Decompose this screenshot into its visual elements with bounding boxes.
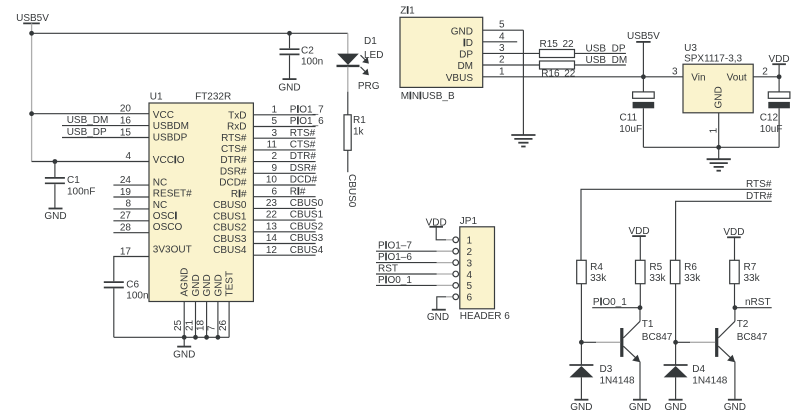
svg-text:5: 5	[499, 20, 505, 31]
svg-text:PRG: PRG	[358, 81, 380, 92]
wire rail to VCC pin	[32, 113, 149, 115]
svg-text:19: 19	[120, 187, 132, 198]
wire 3V3OUT pin 17 to C6	[114, 257, 149, 282]
svg-text:USB5V: USB5V	[16, 13, 49, 24]
node junction Vout/VDD/C12	[777, 74, 782, 79]
svg-text:GND: GND	[213, 274, 224, 296]
svg-text:R6: R6	[684, 262, 697, 273]
wire T1 base	[581, 341, 620, 343]
power flag USB5V (top-left)	[16, 13, 49, 24]
svg-text:Vin: Vin	[691, 72, 705, 83]
resistor R4 33k	[577, 260, 608, 284]
svg-text:FT232R: FT232R	[195, 92, 231, 103]
node junction GND bus	[716, 145, 721, 150]
svg-text:USBDM: USBDM	[153, 121, 189, 132]
wire PRG to R1	[347, 92, 349, 115]
svg-text:12: 12	[266, 245, 278, 256]
svg-text:1: 1	[271, 104, 277, 115]
svg-text:100n: 100n	[301, 57, 323, 68]
net label USB_DM	[62, 115, 149, 126]
svg-text:GND: GND	[570, 402, 592, 413]
wire pin 5 GND to earth drop	[483, 29, 524, 31]
svg-text:CBUS4: CBUS4	[213, 245, 247, 256]
svg-text:22: 22	[266, 210, 278, 221]
svg-text:2: 2	[271, 151, 277, 162]
wire LED cathode to PRG	[347, 67, 349, 92]
diode D4 1N4148	[664, 364, 728, 400]
svg-text:CBUS0: CBUS0	[213, 200, 247, 211]
svg-text:T1: T1	[642, 319, 654, 330]
wire Vout to VDD junction	[753, 76, 779, 78]
wire R4 to T1 base node	[580, 284, 582, 365]
resistor R7 33k	[730, 260, 761, 284]
power flag USB5V (right)	[627, 31, 660, 77]
svg-text:CBUS0: CBUS0	[290, 198, 324, 209]
svg-text:R16: R16	[541, 68, 560, 79]
svg-text:SPX1117-3,3: SPX1117-3,3	[684, 54, 742, 65]
svg-text:RST: RST	[378, 264, 398, 275]
svg-text:JP1: JP1	[460, 216, 478, 227]
net label PIO1-6	[376, 252, 437, 263]
svg-text:ZI1: ZI1	[400, 6, 415, 17]
wire pin 2 DM to R16	[483, 64, 540, 66]
svg-text:NC: NC	[153, 200, 167, 211]
svg-text:CTS#: CTS#	[290, 140, 316, 151]
connector Z1 MINIUSB_B body	[400, 17, 483, 87]
svg-text:R15: R15	[540, 39, 559, 50]
U1 left pin numbers 20 16 15 4 24 19 8 27 28 17	[120, 104, 132, 258]
svg-text:DSR#: DSR#	[290, 163, 317, 174]
svg-text:3: 3	[499, 43, 505, 54]
svg-text:PIO1_7: PIO1_7	[290, 104, 324, 115]
pin 6 circle	[453, 294, 459, 300]
U3 pin names Vin Vout GND	[691, 72, 747, 108]
svg-text:OSCI: OSCI	[153, 211, 177, 222]
svg-text:33k: 33k	[684, 273, 701, 284]
svg-text:22: 22	[564, 68, 576, 79]
svg-text:4: 4	[467, 270, 473, 281]
wire R6 to T2 base node	[675, 284, 677, 365]
svg-text:33k: 33k	[649, 273, 666, 284]
svg-text:100nF: 100nF	[67, 187, 95, 198]
svg-text:3: 3	[271, 128, 277, 139]
svg-text:AGND: AGND	[180, 268, 191, 297]
svg-text:33k: 33k	[744, 273, 761, 284]
capacitor C12 10uF (polarized)	[760, 77, 790, 148]
svg-text:21: 21	[184, 319, 195, 331]
node junction T2 base / D4	[673, 340, 678, 345]
svg-text:CBUS3: CBUS3	[290, 233, 324, 244]
U1 right pin numbers 1 5 3 11 2 9 10 6 23 22 13 14 12	[266, 104, 278, 255]
pin 7 GND stub	[217, 302, 219, 338]
net label PIO0_1 (T1 collector)	[592, 297, 640, 308]
pin 1 stub	[446, 239, 453, 241]
wire R7 to collector node	[734, 284, 736, 308]
svg-text:100n: 100n	[126, 291, 148, 302]
svg-text:VBUS: VBUS	[446, 73, 474, 84]
svg-text:20: 20	[120, 104, 132, 115]
svg-text:USB_DM: USB_DM	[67, 115, 109, 126]
svg-text:2: 2	[467, 247, 473, 258]
svg-text:GND: GND	[724, 402, 746, 413]
wire GND vertical drop	[522, 30, 524, 135]
svg-text:GND: GND	[427, 312, 449, 323]
svg-text:GND: GND	[202, 274, 213, 296]
net label RST	[376, 264, 437, 275]
svg-text:VCCIO: VCCIO	[153, 155, 185, 166]
svg-text:D1: D1	[364, 36, 377, 47]
pin 3 circle	[453, 260, 459, 266]
svg-text:TEST: TEST	[225, 271, 236, 297]
svg-text:CTS#: CTS#	[221, 144, 247, 155]
net label PIO0_1	[376, 275, 437, 286]
svg-text:DCD#: DCD#	[219, 178, 247, 189]
svg-text:1N4148: 1N4148	[600, 376, 635, 387]
pin 4 ID stub	[483, 41, 518, 43]
node junctions on ground bus	[182, 335, 221, 340]
node junction rail/VCC	[29, 111, 34, 116]
wire USB5V rail vertical	[31, 23, 33, 161]
ground GND under C2	[278, 79, 300, 93]
svg-text:PIO0_1: PIO0_1	[378, 275, 412, 286]
svg-text:15: 15	[120, 127, 132, 138]
resistor R15 22	[540, 39, 575, 58]
svg-text:18: 18	[195, 319, 206, 331]
pin 28 OSCO stub	[113, 232, 149, 234]
LED light arrows	[361, 55, 369, 75]
pin 2 stub	[437, 250, 453, 252]
wire R1 to CBUS0	[347, 150, 349, 172]
svg-text:ID: ID	[463, 38, 473, 49]
wire T2 base	[676, 341, 716, 343]
svg-text:9: 9	[271, 163, 277, 174]
svg-text:RTS#: RTS#	[746, 179, 772, 190]
svg-text:22: 22	[563, 39, 575, 50]
svg-text:nRST: nRST	[745, 297, 771, 308]
svg-text:C6: C6	[126, 280, 139, 291]
svg-text:7: 7	[207, 325, 218, 331]
pin 24 NC stub	[113, 184, 149, 186]
node junction USB5V/Vin/C11	[641, 74, 646, 79]
svg-text:16: 16	[120, 115, 132, 126]
power flag VDD (right)	[768, 54, 789, 77]
svg-text:25: 25	[173, 319, 184, 331]
svg-text:VDD: VDD	[723, 227, 744, 238]
svg-text:33k: 33k	[590, 273, 607, 284]
svg-text:10uF: 10uF	[760, 124, 783, 135]
LED D1	[337, 36, 384, 66]
diode D3 1N4148	[569, 364, 635, 400]
regulator U3 SPX1117-3,3 body	[683, 64, 753, 113]
svg-text:8: 8	[125, 199, 131, 210]
pin 5 stub	[437, 284, 453, 286]
ground earth symbol under Z1	[511, 135, 535, 147]
ground GND under JP1	[427, 310, 449, 323]
svg-text:VCC: VCC	[153, 110, 174, 121]
pin 5 circle	[453, 283, 459, 289]
transistor T2 BC847	[715, 308, 768, 400]
svg-text:DCD#: DCD#	[290, 175, 318, 186]
ground GND under C1	[44, 209, 66, 223]
svg-text:DM: DM	[457, 61, 473, 72]
pin 2 circle	[453, 248, 459, 254]
JP1 pin numbers 1-6	[467, 236, 473, 304]
pin 21 GND stub	[195, 302, 197, 338]
svg-text:CBUS0: CBUS0	[346, 174, 357, 208]
svg-text:GND: GND	[451, 26, 473, 37]
svg-text:RTS#: RTS#	[290, 128, 316, 139]
pin 4 stub	[437, 273, 453, 275]
capacitor C1 100nF	[45, 162, 95, 209]
svg-text:4: 4	[499, 31, 505, 42]
svg-text:PIO1_6: PIO1_6	[290, 116, 324, 127]
svg-text:CBUS4: CBUS4	[290, 245, 324, 256]
resistor R16 22	[540, 61, 576, 79]
svg-text:17: 17	[120, 246, 132, 257]
svg-text:23: 23	[266, 198, 278, 209]
svg-text:1: 1	[467, 236, 473, 247]
connector JP1 HEADER 6 body	[460, 227, 495, 309]
svg-text:D3: D3	[600, 364, 613, 375]
svg-text:CBUS1: CBUS1	[213, 211, 247, 222]
svg-text:C1: C1	[67, 175, 80, 186]
svg-text:RxD: RxD	[227, 122, 246, 133]
svg-text:CBUS1: CBUS1	[290, 210, 324, 221]
svg-text:GND: GND	[173, 350, 195, 361]
Z1 pin numbers 5 4 3 2 1	[499, 20, 505, 78]
U3 pin numbers 3 2 1	[672, 66, 768, 133]
svg-text:10uF: 10uF	[619, 124, 642, 135]
net label PIO1-7	[376, 241, 437, 252]
svg-text:2: 2	[762, 66, 768, 77]
pin 25 AGND stub	[183, 302, 185, 338]
pin 26 TEST stub	[228, 302, 230, 338]
wire ground bus under U1	[114, 336, 229, 338]
resistor R1 1k	[344, 115, 366, 151]
wire pin 3 DP to R15	[483, 52, 540, 54]
wire ground bus under U3	[643, 146, 779, 148]
svg-text:3V3OUT: 3V3OUT	[153, 245, 192, 256]
svg-text:R1: R1	[353, 115, 366, 126]
pin 19 RESET# stub	[113, 196, 149, 198]
wire pin 1 VBUS to USB5V junction	[483, 76, 683, 78]
ground GND under T2 emitter	[724, 400, 746, 413]
svg-text:C2: C2	[301, 46, 314, 57]
svg-text:R7: R7	[744, 262, 757, 273]
wire R5 to collector node	[639, 284, 641, 308]
svg-text:5: 5	[271, 116, 277, 127]
svg-text:DTR#: DTR#	[290, 151, 317, 162]
svg-text:C12: C12	[760, 112, 779, 123]
svg-text:1: 1	[709, 127, 720, 133]
svg-text:USB5V: USB5V	[627, 31, 660, 42]
svg-text:DSR#: DSR#	[220, 167, 247, 178]
pin 27 OSCI stub	[113, 220, 149, 222]
pin 8 NC stub	[113, 208, 149, 210]
svg-text:RI#: RI#	[290, 186, 306, 197]
node junction T1 base / D3	[579, 340, 584, 345]
svg-text:10: 10	[266, 175, 278, 186]
pin 18 GND stub	[206, 302, 208, 338]
svg-text:1: 1	[499, 66, 505, 77]
svg-text:BC847: BC847	[737, 332, 768, 343]
svg-text:6: 6	[467, 293, 473, 304]
Z1 pin names	[446, 26, 474, 84]
svg-text:U3: U3	[684, 43, 697, 54]
net label USB_DP	[62, 127, 149, 138]
capacitor C2 100n	[280, 33, 324, 79]
svg-text:R5: R5	[649, 262, 662, 273]
wire JP1 pin 6 to GND	[437, 297, 446, 310]
node junction rail/top wire	[29, 31, 34, 36]
svg-text:GND: GND	[629, 402, 651, 413]
capacitor C11 10uF (polarized)	[619, 77, 654, 148]
svg-text:1k: 1k	[353, 127, 365, 138]
power flag VDD above R5	[628, 226, 649, 260]
svg-text:5: 5	[467, 281, 473, 292]
wire RTS# net	[581, 189, 772, 260]
svg-text:MINIUSB_B: MINIUSB_B	[401, 91, 455, 102]
net label nRST (T2 collector)	[735, 297, 772, 308]
svg-text:USB_DM: USB_DM	[586, 55, 628, 66]
U1 right pin stubs	[253, 115, 315, 255]
wire DTR# net	[676, 201, 772, 260]
svg-text:4: 4	[125, 151, 131, 162]
svg-text:2: 2	[499, 55, 505, 66]
svg-text:24: 24	[120, 175, 132, 186]
ground GND under U1	[173, 337, 195, 360]
svg-text:PIO0_1: PIO0_1	[593, 297, 627, 308]
ground GND under D4	[664, 400, 686, 413]
U1 bottom pin names AGND GND GND GND TEST	[180, 268, 236, 297]
svg-text:14: 14	[266, 233, 278, 244]
svg-text:RESET#: RESET#	[153, 189, 192, 200]
svg-text:C11: C11	[620, 112, 638, 123]
wire R15 to USB_DP label	[575, 52, 626, 54]
transistor T1 BC847	[620, 308, 673, 400]
wire USB5V top horizontal to LED	[32, 32, 348, 34]
svg-text:USB_DP: USB_DP	[586, 43, 626, 54]
svg-text:GND: GND	[714, 86, 725, 108]
svg-text:3: 3	[672, 66, 678, 77]
pin 6 stub	[446, 296, 453, 298]
svg-text:GND: GND	[44, 211, 66, 222]
svg-text:HEADER 6: HEADER 6	[460, 311, 510, 322]
wire anode drop to LED	[347, 33, 349, 54]
svg-text:PIO1–7: PIO1–7	[378, 241, 412, 252]
svg-text:Vout: Vout	[727, 72, 747, 83]
svg-text:BC847: BC847	[642, 332, 673, 343]
node junction C2 tap	[287, 31, 292, 36]
node junction T2 collector	[733, 305, 738, 310]
ground GND under D3	[570, 400, 592, 413]
svg-text:3: 3	[467, 258, 473, 269]
svg-text:PIO1–6: PIO1–6	[378, 252, 412, 263]
svg-text:GND: GND	[191, 274, 202, 296]
wire R16 to USB_DM label	[575, 64, 626, 66]
svg-text:USBDP: USBDP	[153, 132, 188, 143]
U1 bottom pin numbers 25 21 18 7 26	[173, 319, 229, 331]
svg-text:6: 6	[271, 186, 277, 197]
svg-text:27: 27	[120, 211, 132, 222]
ground earth symbol under U3	[707, 147, 731, 170]
pin 4 circle	[453, 271, 459, 277]
wire VDD to JP1 pin 1	[436, 227, 446, 240]
svg-text:USB_DP: USB_DP	[67, 127, 107, 138]
svg-text:TxD: TxD	[228, 110, 246, 121]
svg-text:13: 13	[266, 221, 278, 232]
svg-text:NC: NC	[153, 177, 167, 188]
svg-text:DP: DP	[459, 50, 473, 61]
svg-text:CBUS2: CBUS2	[213, 223, 247, 234]
resistor R6 33k	[670, 260, 701, 284]
svg-text:11: 11	[267, 140, 278, 151]
svg-text:28: 28	[120, 223, 132, 234]
svg-text:U1: U1	[150, 92, 163, 103]
svg-text:DTR#: DTR#	[746, 191, 773, 202]
wire rail bend to VCCIO pin	[32, 161, 149, 163]
svg-text:RTS#: RTS#	[221, 133, 247, 144]
wire U3 GND pin 1 drop	[718, 113, 720, 148]
svg-text:OSCO: OSCO	[153, 222, 183, 233]
IC U1 FT232R body	[149, 103, 253, 302]
svg-text:1N4148: 1N4148	[692, 376, 727, 387]
svg-text:RI#: RI#	[231, 189, 247, 200]
svg-text:R4: R4	[590, 262, 603, 273]
node junction C1 tap	[53, 159, 58, 164]
node junction T1 collector	[638, 305, 643, 310]
U1 left pin names	[153, 110, 192, 256]
svg-text:CBUS2: CBUS2	[290, 221, 324, 232]
ground GND under T1 emitter	[629, 400, 651, 413]
pin 1 circle	[453, 237, 459, 243]
power flag VDD at JP1	[426, 217, 447, 228]
U1 right pin names	[213, 110, 247, 256]
pin 3 stub	[437, 262, 453, 264]
capacitor C6 100n	[104, 280, 149, 338]
net labels on U1 right pins	[290, 104, 324, 255]
svg-text:GND: GND	[664, 402, 686, 413]
svg-text:T2: T2	[737, 319, 749, 330]
power flag VDD above R7	[723, 227, 744, 260]
resistor R5 33k	[636, 260, 667, 284]
svg-text:CBUS3: CBUS3	[213, 234, 247, 245]
svg-text:DTR#: DTR#	[220, 155, 247, 166]
svg-text:26: 26	[218, 319, 229, 331]
svg-text:GND: GND	[278, 83, 300, 94]
svg-text:D4: D4	[692, 364, 705, 375]
